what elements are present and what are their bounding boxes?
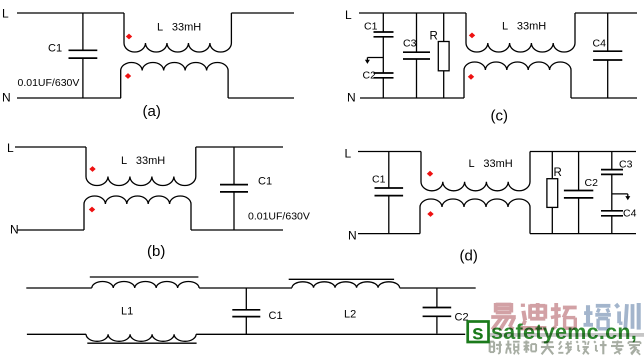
inductor L1 top winding	[92, 282, 199, 289]
capacitor C1 (d)	[375, 152, 404, 234]
watermark char di	[521, 303, 547, 328]
inductor L2 winding	[292, 282, 400, 288]
wire L rail right (b)	[196, 146, 283, 148]
svg-text:R: R	[430, 31, 438, 43]
capacitor C4 (d)	[601, 211, 623, 234]
svg-text:C4: C4	[623, 208, 637, 220]
svg-text:L: L	[7, 141, 14, 155]
capacitor C1 (bottom filter)	[232, 288, 260, 334]
svg-text:L 33mH: L 33mH	[157, 22, 201, 34]
capacitor C1 (a)	[69, 13, 98, 98]
svg-text:0.01UF/630V: 0.01UF/630V	[248, 211, 310, 223]
inductor L top winding (a)	[124, 13, 231, 52]
polarity dot bottom (b)	[89, 207, 95, 213]
svg-text:safetyemc.cn,: safetyemc.cn,	[491, 320, 637, 344]
inductor L top winding (c)	[466, 13, 575, 52]
resistor R (c)	[438, 13, 449, 98]
polarity dot top (b)	[89, 166, 95, 172]
svg-text:(d): (d)	[460, 248, 478, 265]
watermark char xun	[616, 303, 639, 330]
watermark subtitle char pin	[506, 341, 520, 355]
inductor L1 core line bottom	[87, 342, 196, 344]
wire L rail left (b)	[15, 146, 86, 148]
svg-text:(b): (b)	[147, 243, 165, 260]
watermark subtitle char he	[524, 341, 537, 353]
inductor L bottom winding (c)	[464, 62, 571, 98]
capacitor C1 (b)	[220, 147, 248, 230]
svg-text:C2: C2	[363, 70, 377, 82]
watermark subtitle char she	[490, 341, 502, 354]
wire L rail left (c)	[359, 12, 466, 14]
capacitor C1 (c)	[374, 13, 394, 73]
wire right top (bottom filter)	[400, 287, 476, 289]
watermark gray underline band	[486, 333, 644, 337]
watermark subtitle char zhuan	[611, 341, 624, 355]
watermark subtitle char tian	[541, 342, 554, 354]
svg-text:L 33mH: L 33mH	[121, 155, 165, 167]
svg-text:(a): (a)	[143, 103, 161, 120]
inductor L top winding (b)	[86, 147, 196, 186]
svg-text:L: L	[2, 7, 9, 21]
inductor L2 core line	[289, 278, 394, 280]
wire N rail left (d)	[358, 233, 420, 235]
polarity dot bottom (c)	[468, 74, 474, 80]
wire L rail right (a)	[231, 12, 294, 14]
wire N rail right (d)	[530, 233, 636, 235]
svg-text:L: L	[345, 8, 352, 22]
wire N rail left (a)	[17, 97, 121, 99]
wire mid bottom (bottom filter)	[196, 333, 465, 335]
watermark subtitle char ji	[594, 341, 607, 355]
watermark subtitle char she2	[576, 341, 588, 354]
svg-text:C1: C1	[48, 43, 62, 55]
wire L rail left (d)	[358, 151, 421, 153]
earth arrow (c)	[365, 58, 383, 64]
svg-text:N: N	[347, 91, 356, 105]
svg-text:C1: C1	[269, 310, 283, 322]
polarity dot bottom (a)	[125, 73, 131, 79]
inductor L bottom winding (a)	[121, 63, 228, 99]
polarity dot top (c)	[469, 33, 475, 39]
svg-text:L1: L1	[121, 306, 133, 318]
inductor L bottom winding (d)	[420, 199, 530, 234]
svg-text:L 33mH: L 33mH	[502, 21, 546, 33]
svg-text:R: R	[554, 167, 562, 179]
wire input bottom (bottom filter)	[27, 333, 86, 335]
inductor L top winding (d)	[421, 152, 530, 191]
svg-text:C4: C4	[593, 38, 607, 50]
svg-text:L: L	[345, 147, 352, 161]
watermark subtitle char xian	[558, 341, 572, 354]
resistor R (d)	[547, 152, 558, 234]
wire L rail right (d)	[530, 151, 636, 153]
wire N rail right (b)	[191, 229, 283, 231]
svg-text:L2: L2	[344, 309, 356, 321]
wire N rail right (c)	[571, 97, 637, 99]
svg-text:C1: C1	[364, 21, 378, 33]
capacitor C4 (c)	[593, 13, 622, 98]
wire N rail right (a)	[228, 97, 294, 99]
wire L rail left (a)	[17, 12, 124, 14]
inductor L1 core line top	[90, 276, 199, 278]
svg-text:(c): (c)	[491, 108, 509, 125]
polarity dot top (d)	[427, 171, 433, 177]
svg-text:C2: C2	[585, 177, 599, 189]
svg-text:C1: C1	[258, 176, 272, 188]
polarity dot top (a)	[126, 34, 132, 40]
svg-text:s: s	[472, 322, 484, 345]
wire N rail left (b)	[17, 229, 84, 231]
svg-text:C3: C3	[403, 38, 417, 50]
polarity dot bottom (d)	[427, 211, 433, 217]
watermark char pei	[584, 305, 611, 329]
wire mid top (bottom filter)	[199, 287, 292, 289]
capacitor C3 (c)	[403, 13, 430, 98]
capacitor C2 (d)	[564, 152, 593, 234]
watermark logo box S	[468, 322, 489, 345]
svg-text:0.01UF/630V: 0.01UF/630V	[18, 77, 80, 89]
capacitor C3 (d)	[601, 152, 623, 211]
wire N rail left (c)	[360, 97, 464, 99]
wire input top (bottom filter)	[26, 287, 92, 289]
svg-text:N: N	[348, 229, 357, 243]
capacitor C2 (c)	[374, 73, 394, 98]
inductor L bottom winding (b)	[84, 196, 191, 230]
watermark subtitle char jia	[628, 341, 640, 355]
svg-text:C1: C1	[372, 174, 386, 186]
earth arrow (d)	[612, 194, 631, 200]
inductor L1 bottom winding	[86, 334, 196, 341]
svg-text:C3: C3	[619, 159, 633, 171]
svg-text:N: N	[2, 91, 11, 105]
watermark char tuo	[551, 303, 577, 329]
watermark char yi	[491, 303, 516, 330]
wire L rail right (c)	[575, 12, 637, 14]
capacitor C2 (bottom filter)	[423, 288, 452, 334]
svg-text:L 33mH: L 33mH	[469, 158, 513, 170]
